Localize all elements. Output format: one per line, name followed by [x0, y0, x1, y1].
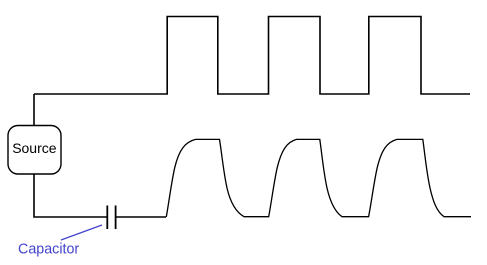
- capacitor C right plate: [115, 206, 117, 230]
- wire from Source top to square wave: [33, 94, 35, 126]
- source box: [8, 126, 61, 175]
- square wave (source signal): [34, 17, 470, 95]
- output waveform (filtered signal): [166, 139, 471, 217]
- wire from Source bottom to capacitor: [34, 174, 107, 217]
- callout leader line: [61, 225, 102, 240]
- wire from capacitor to output wave: [117, 216, 167, 218]
- svg-text:Capacitor: Capacitor: [18, 241, 79, 257]
- svg-text:Source: Source: [12, 140, 57, 156]
- capacitor C left plate: [106, 206, 108, 230]
